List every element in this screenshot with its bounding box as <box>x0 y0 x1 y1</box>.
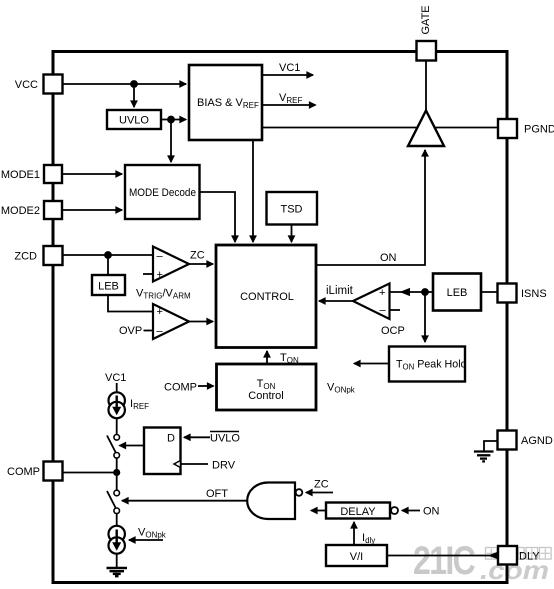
wire LEB to OVP comparator <box>108 295 153 312</box>
svg-text:GATE: GATE <box>420 5 432 34</box>
svg-text:UVLO: UVLO <box>210 433 240 445</box>
wire DRV <box>181 463 209 465</box>
svg-text:–: – <box>380 305 387 317</box>
wire ZCD input <box>63 254 154 256</box>
node COMP junction <box>113 469 120 476</box>
svg-text:LEB: LEB <box>447 287 468 299</box>
svg-text:ISNS: ISNS <box>521 288 547 300</box>
svg-text:LEB: LEB <box>98 281 119 293</box>
svg-text:ZC: ZC <box>314 479 329 491</box>
wire VCC to BIAS <box>63 83 187 85</box>
ground AGND branch <box>474 441 498 461</box>
svg-text:DLY: DLY <box>519 551 540 563</box>
ground COMP branch <box>107 568 128 576</box>
svg-text:DELAY: DELAY <box>340 506 376 518</box>
wire ISNS to LEB <box>481 291 498 293</box>
wire VCC junction down to UVLO <box>133 84 135 107</box>
svg-text:OCP: OCP <box>381 325 405 337</box>
wire peak hold output <box>354 363 389 365</box>
wire V/I to DLY <box>387 555 498 557</box>
watermark 21IC.com <box>413 538 551 585</box>
wire junction down to peak hold <box>424 292 426 342</box>
wire OVP stub <box>144 330 154 332</box>
wire OCP minus stub <box>390 309 401 311</box>
pin AGND <box>498 431 553 450</box>
wire MODE2 to decode <box>62 209 122 211</box>
pin MODE2 <box>1 201 62 219</box>
pin MODE1 <box>1 165 62 183</box>
pin ZCD <box>14 246 62 265</box>
TSD block <box>267 192 318 225</box>
wire VTRIG stub <box>143 273 153 275</box>
wire GATE to driver <box>425 60 427 111</box>
node ISNS junction <box>421 288 429 296</box>
wire MODE1 to decode <box>62 173 122 175</box>
wire OFT from NAND to switch <box>122 500 249 502</box>
svg-text:ON: ON <box>423 506 440 518</box>
label UVLO bar <box>210 432 240 445</box>
flip-flop D <box>144 428 181 475</box>
wire BIAS supply to PGND <box>262 127 498 129</box>
driver buffer <box>408 111 444 147</box>
wire switch to VONpk source <box>116 514 118 526</box>
wire VC1 output <box>262 74 313 76</box>
wire ZC comparator to CONTROL <box>189 263 213 265</box>
MODE Decode block <box>125 165 200 219</box>
svg-text:21IC: 21IC <box>413 538 476 583</box>
svg-text:AGND: AGND <box>521 435 553 447</box>
comparator OVP <box>153 304 189 339</box>
CONTROL block <box>216 245 316 348</box>
svg-text:VC1: VC1 <box>279 62 300 74</box>
wire TON Control to CONTROL <box>266 351 268 364</box>
svg-text:OVP: OVP <box>119 325 142 337</box>
wire VONpk label arrow <box>129 539 163 541</box>
svg-text:TSD: TSD <box>281 204 303 216</box>
svg-text:MODE2: MODE2 <box>1 205 40 217</box>
switch lower <box>107 490 119 513</box>
wire switch chain vertical <box>116 458 118 490</box>
wire Idly <box>353 522 355 545</box>
pin COMP <box>7 462 63 481</box>
LEB block right <box>433 274 481 311</box>
wire iLimit <box>319 300 353 302</box>
svg-text:V/I: V/I <box>350 551 363 563</box>
svg-text:ZCD: ZCD <box>14 251 37 263</box>
wire COMP to TON Control <box>198 385 214 387</box>
pin VCC <box>15 75 63 94</box>
comparator ZC <box>153 247 189 282</box>
BIAS & VREF block <box>189 65 262 140</box>
svg-text:COMP: COMP <box>164 382 197 394</box>
V/I block <box>326 545 387 566</box>
wire IREF to switch <box>116 418 118 434</box>
wire ON to DELAY <box>402 510 420 512</box>
svg-text:D: D <box>167 433 175 445</box>
svg-text:UVLO: UVLO <box>119 115 149 127</box>
TON Control block <box>217 364 317 410</box>
svg-text:MODE1: MODE1 <box>1 169 40 181</box>
svg-text:ZC: ZC <box>190 250 205 262</box>
pin PGND <box>498 119 554 138</box>
comparator OCP <box>353 284 390 320</box>
wire VREF output <box>262 104 316 106</box>
wire TSD to CONTROL <box>291 225 293 243</box>
wire ZC to NAND <box>306 492 333 494</box>
chip boundary <box>53 52 507 583</box>
node VCC junction <box>130 80 138 88</box>
wire BIAS down to CONTROL <box>252 140 254 242</box>
wire COMP pin to junction <box>63 472 117 474</box>
svg-text:–: – <box>157 251 164 263</box>
UVLO block <box>107 110 161 129</box>
pin GATE <box>417 5 437 60</box>
wire ON to driver <box>316 150 425 265</box>
svg-text:+: + <box>157 269 163 281</box>
wire DELAY to NAND <box>311 510 326 512</box>
pin DLY <box>498 546 540 565</box>
wire LEB to OCP <box>390 291 434 293</box>
svg-text:iLimit: iLimit <box>326 285 354 297</box>
wire DRV control to switch <box>120 445 145 447</box>
DELAY block <box>326 503 398 519</box>
current source IREF <box>109 392 125 418</box>
arrow on DLY wire <box>488 552 497 559</box>
svg-text:MODE Decode: MODE Decode <box>129 187 196 199</box>
wire UVLO bar to flip-flop <box>184 436 210 438</box>
svg-text:DRV: DRV <box>212 460 236 472</box>
wire VC1 to IREF <box>116 383 118 393</box>
svg-text:CONTROL: CONTROL <box>240 291 294 303</box>
node UVLO junction <box>167 116 175 124</box>
svg-text:Control: Control <box>248 390 283 402</box>
svg-text:–: – <box>157 326 164 338</box>
wire ZCD junction to LEB <box>107 255 109 275</box>
svg-text:VCC: VCC <box>15 79 38 91</box>
svg-text:PGND: PGND <box>524 124 554 136</box>
svg-text:COMP: COMP <box>7 466 40 478</box>
LEB block left <box>92 275 125 295</box>
svg-text:+: + <box>157 306 163 318</box>
svg-text:ON: ON <box>380 252 397 264</box>
wire VONpk to ground <box>116 554 118 568</box>
node ZCD junction <box>104 251 112 259</box>
pin ISNS <box>498 284 547 303</box>
TON Peak Hold block <box>389 347 467 382</box>
svg-text:VC1: VC1 <box>105 372 126 384</box>
svg-text:+: + <box>379 287 385 299</box>
switch upper <box>107 435 119 459</box>
wire UVLO to BIAS <box>161 119 186 121</box>
wire OVP comparator to CONTROL <box>189 321 213 323</box>
wire UVLO junction down to MODE Decode <box>170 120 172 163</box>
NAND gate OFT <box>247 483 302 520</box>
wire MODE Decode to CONTROL <box>200 192 236 242</box>
svg-text:OFT: OFT <box>206 488 228 500</box>
current source VONpk <box>109 526 125 554</box>
